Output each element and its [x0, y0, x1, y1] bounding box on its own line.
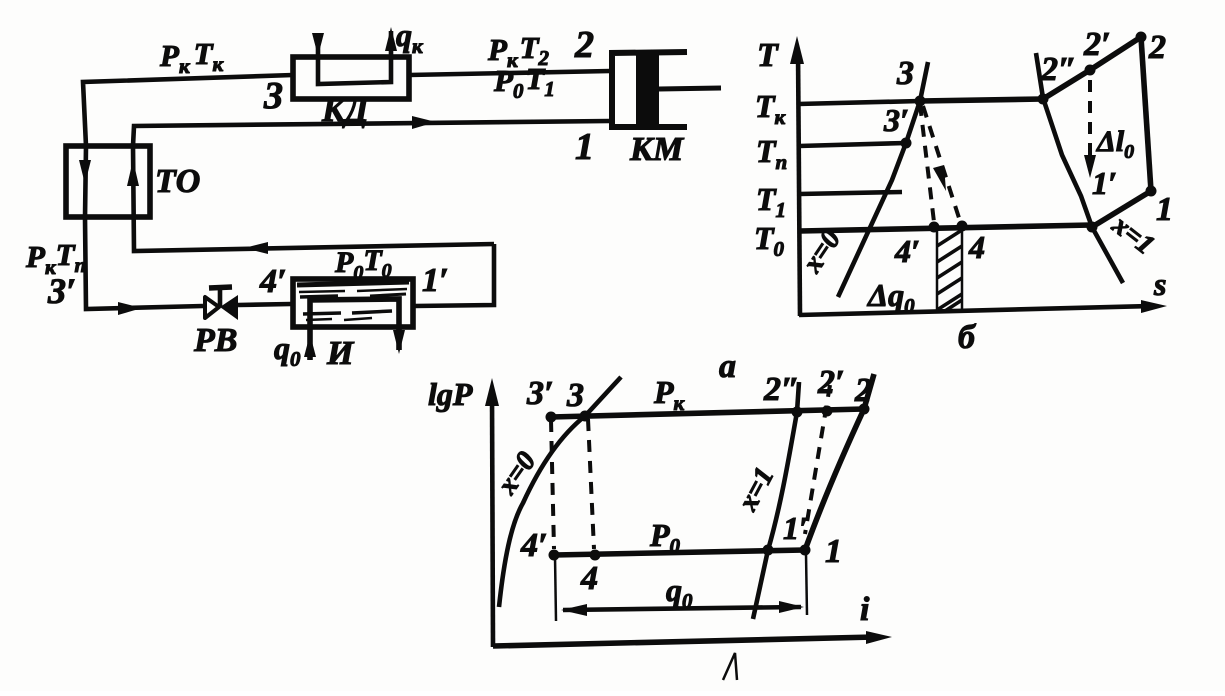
compression curve 1-2 (bold): [805, 374, 874, 550]
label T axis: [757, 37, 779, 74]
svg-text:2′: 2′: [817, 364, 845, 401]
label 3 (at condenser): [263, 75, 283, 117]
svg-text:2: 2: [574, 24, 594, 66]
label 4' (lgP): [520, 527, 548, 564]
label 4' (schematic): [259, 263, 287, 300]
svg-text:1′: 1′: [422, 262, 449, 299]
svg-text:Т0: Т0: [754, 220, 785, 261]
label 1' (schematic): [422, 262, 449, 299]
cycle line 3-2'' (bold): [920, 99, 1043, 101]
svg-text:3: 3: [566, 377, 584, 414]
label RV: [193, 322, 237, 359]
label v (caption): [723, 653, 737, 680]
svg-text:РВ: РВ: [193, 322, 237, 359]
svg-text:И: И: [326, 335, 355, 372]
arrow: right arrow on suction line to KM: [412, 116, 436, 129]
dashed 3-4 (lgP): [588, 419, 594, 549]
x=0 saturation curve (lgP): [499, 377, 621, 607]
label TO: [155, 163, 200, 200]
node 2 (lgP): [859, 404, 870, 415]
T0 evaporation line (bold): [800, 225, 1092, 231]
wire: valve to evaporator: [238, 304, 291, 305]
svg-text:Pк: Pк: [653, 374, 686, 415]
label 2'' (T-s): [1040, 51, 1077, 88]
svg-text:Тк: Тк: [755, 88, 787, 129]
svg-text:1′: 1′: [783, 510, 808, 546]
svg-text:КД: КД: [321, 92, 370, 129]
hatched strip Dq0: [937, 227, 962, 311]
node 3' (lgP): [546, 412, 557, 423]
svg-text:а: а: [719, 348, 736, 385]
svg-text:1: 1: [1156, 191, 1173, 228]
label 2 (schematic): [574, 24, 594, 66]
svg-text:q0: q0: [666, 572, 693, 613]
svg-text:3: 3: [263, 75, 283, 117]
label 1 (T-s): [1156, 191, 1173, 228]
label Pk Tk: [159, 36, 225, 78]
arrow: brine in (up) at evaporator: [304, 334, 316, 357]
dashed Dl0 line 2'-1' with down arrow: [1084, 80, 1096, 178]
q0 dimension line with arrows: [561, 601, 804, 616]
label x=0 (lgP) rotated: [491, 446, 542, 501]
dashed 3'-4' (lgP): [551, 420, 554, 549]
dashed throttling 3-4 with arrow: [923, 106, 960, 221]
node 3 (lgP): [580, 411, 591, 422]
compressor KM cylinder: [612, 52, 687, 127]
node 4' (lgP): [549, 550, 560, 561]
svg-text:КМ: КМ: [629, 131, 685, 168]
arrow: down arrow in TO on liquid line: [79, 160, 91, 184]
label Pk isobar: [653, 374, 686, 415]
svg-text:3′: 3′: [47, 271, 76, 311]
wire: discharge pipe condenser to compressor: [409, 71, 610, 75]
node 1 (lgP): [800, 545, 811, 556]
arrow: brine out (down) at evaporator: [393, 330, 405, 354]
svg-text:4: 4: [580, 560, 598, 597]
label Tk: [755, 88, 787, 129]
label 1' (T-s): [1092, 165, 1117, 201]
evaporator I box: [293, 279, 413, 327]
label a (caption of schematic): [719, 348, 736, 385]
svg-text:2″: 2″: [1040, 51, 1077, 88]
arrow: qk out (up) at condenser: [385, 27, 397, 51]
arrow: water in (down) at condenser: [312, 33, 324, 56]
svg-text:i: i: [860, 591, 870, 628]
svg-text:б: б: [958, 319, 977, 356]
compressor piston: [636, 50, 659, 129]
label Dq0: [866, 277, 915, 318]
evaporator water hatch lines: [297, 282, 409, 320]
svg-text:2″: 2″: [763, 371, 800, 408]
label T1: [756, 181, 786, 222]
svg-text:P0Т0: P0Т0: [334, 244, 392, 284]
arrow: right arrow on line to valve: [118, 302, 142, 315]
label P0 isobar: [649, 517, 681, 558]
label Dl0: [1096, 125, 1134, 163]
svg-text:1′: 1′: [1092, 165, 1117, 201]
label 2 (T-s): [1148, 29, 1166, 66]
svg-text:s: s: [1153, 266, 1166, 302]
node 2: [1136, 32, 1147, 43]
label 3' (T-s): [883, 102, 909, 138]
label 1 (schematic): [575, 126, 594, 168]
cycle line 1-x1 junction (bold): [1092, 191, 1151, 227]
Pk isobar (bold): [551, 409, 864, 417]
label lgP: [428, 376, 473, 412]
node 2'': [1038, 94, 1049, 105]
arrow: left arrow on evaporator return line: [244, 242, 268, 254]
node 3': [901, 138, 912, 149]
x=0 saturation curve (T-s): [838, 62, 928, 297]
node 2' (lgP): [822, 406, 833, 417]
svg-text:3′: 3′: [526, 375, 554, 412]
extension below 1: [806, 554, 807, 615]
label 1' (lgP): [783, 510, 808, 546]
dashed 2'-1' (lgP): [805, 385, 830, 534]
heat exchanger TO: [66, 146, 150, 217]
label x=1 (T-s) rotated: [1106, 209, 1161, 261]
wire: liquid line down through TO to valve level: [85, 146, 203, 309]
node 2': [1085, 65, 1096, 76]
svg-text:4′: 4′: [520, 527, 548, 564]
svg-text:4: 4: [968, 229, 985, 265]
svg-text:2: 2: [854, 372, 872, 409]
svg-text:1: 1: [825, 533, 842, 570]
label 2' (T-s): [1083, 26, 1111, 63]
node 2'' (lgP): [792, 407, 803, 418]
extension below 4': [555, 556, 556, 621]
Tp tie line: [799, 143, 906, 146]
label T0: [754, 220, 785, 261]
label KM: [629, 131, 685, 168]
cycle line 2''-2'-2 (bold): [1043, 37, 1141, 99]
cycle line 2-1 (bold): [1141, 37, 1151, 191]
label s axis: [1153, 266, 1166, 302]
T axis: [790, 36, 804, 316]
label q0 (lgP): [666, 572, 693, 613]
svg-text:Тп: Тп: [756, 133, 787, 174]
label KD: [321, 92, 370, 129]
label 3' (left): [47, 271, 76, 311]
svg-text:3: 3: [896, 55, 914, 92]
x=1 saturation curve (lgP): [753, 382, 799, 619]
label Pk Tp (left): [25, 237, 86, 279]
label x=1 (lgP) rotated: [732, 462, 780, 516]
label Pk T2: [487, 30, 550, 72]
svg-text:2′: 2′: [1083, 26, 1111, 63]
label 1 (lgP): [825, 533, 842, 570]
node 1: [1146, 186, 1157, 197]
svg-text:Т1: Т1: [756, 181, 786, 222]
svg-text:q0: q0: [274, 330, 301, 371]
s axis: [799, 300, 1167, 315]
label qk: [396, 17, 424, 58]
node 4: [957, 221, 968, 232]
svg-text:Δq0: Δq0: [866, 277, 915, 318]
svg-text:P0: P0: [649, 517, 681, 558]
node 4 (lgP): [590, 550, 601, 561]
dashed throttling 3-4': [920, 104, 934, 222]
label 4 (lgP): [580, 560, 598, 597]
svg-text:2: 2: [1148, 29, 1166, 66]
svg-text:4′: 4′: [259, 263, 287, 300]
x=1 saturation curve (T-s): [1036, 53, 1123, 283]
expansion valve RV body: [205, 287, 238, 320]
label I (evaporator): [326, 335, 355, 372]
svg-text:4′: 4′: [894, 233, 920, 269]
label 4' (T-s): [894, 233, 920, 269]
svg-text:qк: qк: [396, 17, 424, 58]
condenser KD box: [293, 57, 409, 99]
P0 isobar (bold): [554, 550, 805, 555]
compressor rod: [659, 88, 721, 89]
lgP axis: [485, 378, 499, 647]
label 4 (T-s): [968, 229, 985, 265]
label x=0 (T-s) rotated: [796, 224, 847, 279]
label q0 (schematic): [274, 330, 301, 371]
svg-text:x=1: x=1: [732, 462, 780, 516]
condenser inner water tube: [318, 31, 391, 84]
wire: suction riser through TO: [133, 121, 609, 251]
label 2 (lgP): [854, 372, 872, 409]
label i axis: [860, 591, 870, 628]
svg-text:Т: Т: [757, 37, 779, 74]
label 3' (lgP): [526, 375, 554, 412]
i axis: [493, 631, 892, 646]
node x=1 junction: [1087, 222, 1098, 233]
label 2' (lgP): [817, 364, 845, 401]
arrow: up arrow in TO on suction riser: [127, 160, 139, 186]
label b (caption): [958, 319, 977, 356]
svg-text:PкТк: PкТк: [159, 36, 225, 78]
node 4': [929, 222, 940, 233]
label 3 (T-s): [896, 55, 914, 92]
label 2'' (lgP): [763, 371, 800, 408]
evaporator inner brine tube: [310, 299, 399, 360]
node x1 crossing (lgP): [763, 545, 774, 556]
svg-text:1: 1: [575, 126, 594, 168]
wire: evaporator outlet up to return line: [414, 244, 494, 306]
label 3 (lgP): [566, 377, 584, 414]
svg-text:3′: 3′: [883, 102, 909, 138]
wire: discharge line Pk Tk from condenser to TO: [83, 75, 293, 146]
svg-text:ТО: ТО: [155, 163, 200, 200]
label P0 T1: [493, 61, 555, 103]
label Tp: [756, 133, 787, 174]
T1 tie line: [799, 192, 902, 194]
svg-text:x=0: x=0: [491, 446, 542, 501]
svg-text:lgP: lgP: [428, 376, 473, 412]
svg-text:Δl0: Δl0: [1096, 125, 1134, 163]
label P0 T0 (above evaporator): [334, 244, 392, 284]
Tk tie line: [798, 101, 920, 104]
node 3: [915, 96, 926, 107]
